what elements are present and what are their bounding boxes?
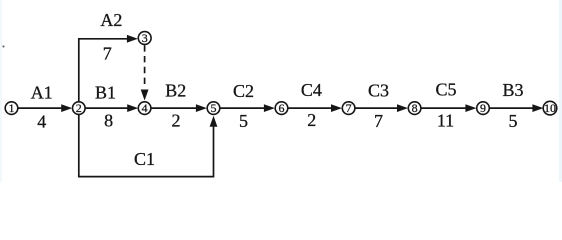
svg-text:B3: B3 — [502, 80, 523, 100]
arrowhead into node 2 — [61, 104, 72, 112]
arrowhead into node 5 — [196, 104, 207, 112]
arrowhead into node 8 — [397, 104, 408, 112]
svg-text:A1: A1 — [31, 83, 53, 103]
wire B2 (4 to 5) — [152, 107, 198, 109]
wire B1 (2 to 4) — [86, 107, 129, 109]
svg-text:C1: C1 — [134, 149, 155, 169]
svg-text:C5: C5 — [435, 80, 456, 100]
arrowhead into node 6 — [264, 104, 275, 112]
wire A2 riser (2 up) — [79, 39, 129, 102]
svg-text:2: 2 — [172, 111, 181, 131]
svg-text:C2: C2 — [233, 81, 254, 101]
svg-text:4: 4 — [37, 112, 46, 132]
left edge tint — [0, 0, 2, 182]
svg-text:7: 7 — [346, 101, 352, 115]
wire A1 (1 to 2) — [18, 107, 63, 109]
wire B3 (9 to 10) — [490, 107, 534, 109]
node 4 — [138, 102, 151, 115]
svg-text:8: 8 — [104, 111, 113, 131]
svg-text:11: 11 — [437, 111, 454, 131]
arrowhead dashed into node 4 top — [141, 90, 149, 101]
svg-text:2: 2 — [307, 110, 316, 130]
svg-text:B1: B1 — [95, 83, 116, 103]
svg-text:1: 1 — [9, 101, 15, 115]
speck artifact — [2, 45, 4, 47]
svg-text:5: 5 — [239, 111, 248, 131]
svg-text:7: 7 — [103, 44, 112, 64]
wire C2 (5 to 6) — [220, 107, 265, 109]
node 1 — [5, 102, 18, 115]
svg-text:B2: B2 — [165, 81, 186, 101]
wire dashed (3 to 4) — [144, 45, 146, 88]
svg-text:3: 3 — [142, 31, 148, 45]
svg-text:2: 2 — [76, 101, 82, 115]
node 8 — [408, 102, 421, 115]
svg-text:C4: C4 — [301, 80, 322, 100]
arrowhead into node 4 — [127, 104, 138, 112]
node 5 — [207, 102, 220, 115]
arrowhead C1 into node 5 bottom — [210, 116, 218, 127]
arrowhead into node 7 — [331, 104, 342, 112]
wire C5 (8 to 9) — [421, 107, 466, 109]
wire C4 (6 to 7) — [288, 107, 332, 109]
node 7 — [342, 102, 355, 115]
svg-text:8: 8 — [412, 101, 418, 115]
node 3 — [138, 32, 151, 45]
svg-text:7: 7 — [374, 111, 383, 131]
svg-text:5: 5 — [211, 101, 217, 115]
node 10 — [543, 101, 557, 115]
svg-text:5: 5 — [509, 111, 518, 131]
wire C1 loop (2 down, across, up to 5) — [79, 115, 214, 177]
node 9 — [477, 102, 490, 115]
svg-text:9: 9 — [480, 101, 486, 115]
arrowhead into node 3 — [127, 35, 138, 43]
svg-text:A2: A2 — [100, 10, 122, 30]
arrowhead into node 9 — [465, 104, 476, 112]
svg-text:10: 10 — [544, 101, 556, 115]
right edge tint — [559, 0, 562, 182]
node 2 — [73, 102, 86, 115]
node 6 — [275, 102, 288, 115]
svg-text:C3: C3 — [368, 81, 389, 101]
arrowhead into node 10 — [532, 104, 543, 112]
svg-text:6: 6 — [279, 101, 285, 115]
wire C3 (7 to 8) — [355, 107, 398, 109]
svg-text:4: 4 — [142, 101, 148, 115]
